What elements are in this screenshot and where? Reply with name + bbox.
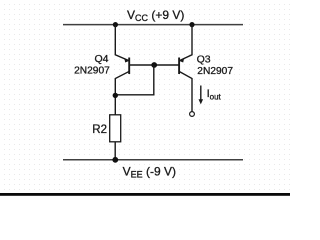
wire Q4 collector lead: [115, 72, 129, 115]
Q3 emitter arrow (PNP, into base): [179, 58, 184, 63]
terminal: Q3 output open circle: [190, 112, 195, 117]
node R2 to VEE rail junction: [112, 157, 118, 163]
node: Q4 emitter junction on VCC rail: [113, 22, 118, 27]
Q4 base bar: [128, 58, 130, 75]
wire Q3 emitter lead: [180, 25, 192, 61]
svg-text:VEE (-9 V): VEE (-9 V): [123, 164, 176, 179]
wire top rail VCC: [63, 24, 243, 26]
wire Q4 emitter lead: [115, 25, 128, 61]
svg-text:Q3: Q3: [197, 54, 211, 66]
node: Q3 emitter junction on VCC rail: [189, 22, 194, 27]
Q3 base bar: [178, 58, 180, 75]
transistor Q4 2N2907 (PNP, mirrored, base bar on right): [115, 25, 129, 115]
node Q4 collector junction: [113, 93, 118, 98]
bottom border line: [0, 193, 290, 196]
wire Q3 collector lead: [179, 72, 192, 112]
transistor Q3 2N2907 (PNP, base bar on left): [179, 25, 192, 112]
wire base interconnect Q4-Q3: [129, 64, 179, 66]
wire diode connection (base to collector of Q4): [115, 65, 154, 95]
Q4 emitter arrow (PNP, into base): [124, 58, 129, 63]
resistor R2: [110, 115, 121, 142]
wire R2 bottom lead: [114, 142, 116, 160]
Iout current arrow: [200, 86, 202, 101]
svg-text:2N2907: 2N2907: [74, 66, 110, 77]
svg-text:2N2907: 2N2907: [197, 66, 233, 77]
svg-text:Q4: Q4: [94, 53, 108, 65]
node base junction: [151, 62, 157, 68]
wire bottom rail VEE: [63, 159, 243, 161]
svg-text:R2: R2: [92, 124, 107, 136]
